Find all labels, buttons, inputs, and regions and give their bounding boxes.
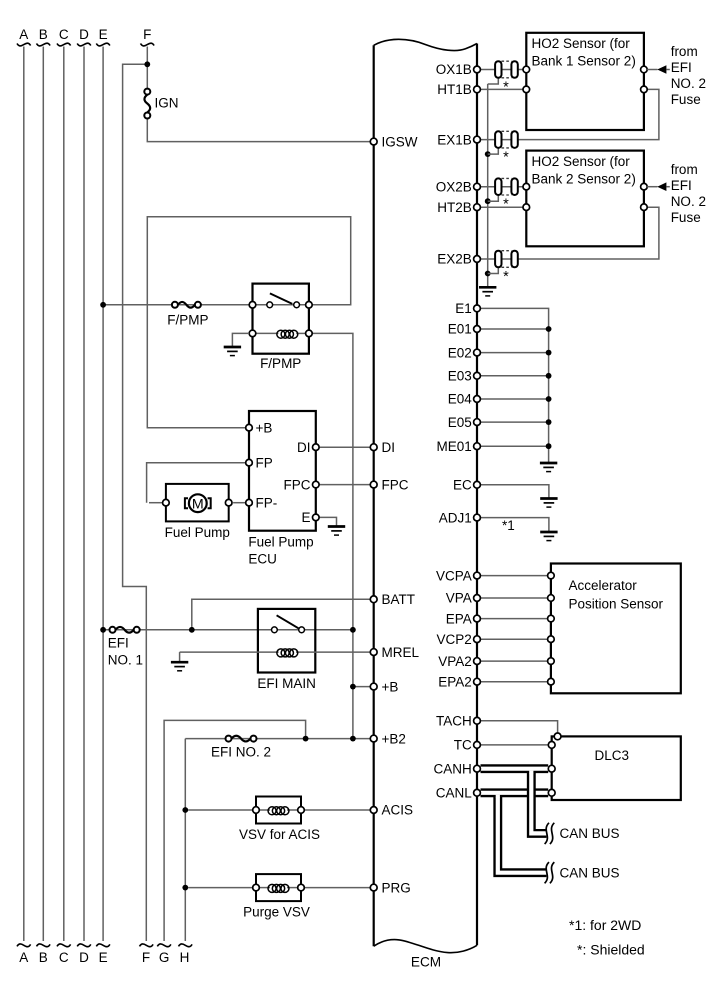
svg-text:F: F bbox=[143, 27, 151, 42]
svg-text:*1: for 2WD: *1: for 2WD bbox=[569, 917, 641, 933]
svg-text:B: B bbox=[39, 950, 48, 965]
svg-text:Accelerator: Accelerator bbox=[569, 578, 638, 593]
svg-text:FP-: FP- bbox=[256, 495, 278, 510]
svg-text:Position Sensor: Position Sensor bbox=[569, 597, 664, 612]
svg-text:from: from bbox=[671, 162, 698, 177]
svg-text:D: D bbox=[79, 27, 89, 42]
svg-text:E02: E02 bbox=[448, 345, 472, 360]
svg-text:MREL: MREL bbox=[382, 645, 420, 660]
svg-text:IGSW: IGSW bbox=[382, 134, 418, 149]
svg-text:M: M bbox=[192, 496, 204, 512]
svg-text:from: from bbox=[671, 44, 698, 59]
svg-text:EX1B: EX1B bbox=[437, 132, 472, 147]
svg-text:HT1B: HT1B bbox=[437, 82, 472, 97]
svg-text:TACH: TACH bbox=[436, 714, 472, 729]
svg-text:F: F bbox=[142, 950, 150, 965]
svg-text:VCP2: VCP2 bbox=[437, 632, 472, 647]
svg-text:CAN BUS: CAN BUS bbox=[560, 866, 620, 881]
svg-text:CAN BUS: CAN BUS bbox=[560, 826, 620, 841]
svg-text:*: * bbox=[503, 150, 509, 166]
svg-text:DI: DI bbox=[297, 440, 311, 455]
svg-text:H: H bbox=[180, 950, 190, 965]
svg-text:E01: E01 bbox=[448, 322, 472, 337]
svg-text:EX2B: EX2B bbox=[437, 252, 472, 267]
svg-text:PRG: PRG bbox=[382, 880, 411, 895]
svg-text:DI: DI bbox=[382, 440, 396, 455]
svg-text:E05: E05 bbox=[448, 415, 472, 430]
svg-text:G: G bbox=[159, 950, 170, 965]
svg-text:+B2: +B2 bbox=[382, 731, 406, 746]
svg-text:NO. 1: NO. 1 bbox=[108, 653, 143, 668]
svg-text:Bank 2 Sensor 2): Bank 2 Sensor 2) bbox=[532, 171, 636, 186]
svg-text:OX1B: OX1B bbox=[436, 62, 472, 77]
svg-text:HO2 Sensor (for: HO2 Sensor (for bbox=[532, 36, 631, 51]
svg-text:ME01: ME01 bbox=[437, 439, 472, 454]
svg-text:+B: +B bbox=[256, 420, 273, 435]
svg-text:VSV for ACIS: VSV for ACIS bbox=[239, 827, 320, 842]
svg-text:*: * bbox=[503, 80, 509, 96]
svg-text:EFI: EFI bbox=[671, 60, 692, 75]
svg-text:E: E bbox=[99, 950, 108, 965]
svg-text:+B: +B bbox=[382, 679, 399, 694]
svg-text:E1: E1 bbox=[455, 301, 472, 316]
svg-text:E: E bbox=[301, 510, 310, 525]
svg-text:C: C bbox=[59, 950, 69, 965]
svg-text:VPA: VPA bbox=[446, 591, 472, 606]
svg-text:IGN: IGN bbox=[155, 95, 179, 110]
svg-text:CANL: CANL bbox=[436, 786, 473, 801]
svg-text:ADJ1: ADJ1 bbox=[439, 510, 472, 525]
svg-text:*1: *1 bbox=[502, 518, 515, 533]
svg-text:Fuse: Fuse bbox=[671, 92, 701, 107]
svg-text:*: * bbox=[503, 197, 509, 213]
svg-text:CANH: CANH bbox=[434, 761, 472, 776]
svg-text:NO. 2: NO. 2 bbox=[671, 76, 706, 91]
svg-text:Fuse: Fuse bbox=[671, 210, 701, 225]
svg-text:A: A bbox=[19, 950, 28, 965]
svg-text:BATT: BATT bbox=[382, 592, 416, 607]
svg-text:E04: E04 bbox=[448, 392, 473, 407]
svg-text:EPA2: EPA2 bbox=[438, 674, 472, 689]
svg-text:E03: E03 bbox=[448, 369, 472, 384]
svg-text:HT2B: HT2B bbox=[437, 200, 472, 215]
svg-text:A: A bbox=[19, 27, 28, 42]
svg-text:EFI: EFI bbox=[671, 178, 692, 193]
svg-text:VCPA: VCPA bbox=[436, 568, 472, 583]
svg-text:TC: TC bbox=[454, 738, 472, 753]
svg-text:EPA: EPA bbox=[446, 611, 472, 626]
svg-text:Bank 1 Sensor 2): Bank 1 Sensor 2) bbox=[532, 53, 636, 68]
svg-text:*: Shielded: *: Shielded bbox=[577, 942, 645, 958]
svg-text:B: B bbox=[39, 27, 48, 42]
svg-text:F/PMP: F/PMP bbox=[167, 313, 208, 328]
svg-text:ECU: ECU bbox=[248, 551, 277, 566]
svg-text:HO2 Sensor (for: HO2 Sensor (for bbox=[532, 154, 631, 169]
svg-text:Fuel Pump: Fuel Pump bbox=[248, 534, 313, 549]
svg-text:NO. 2: NO. 2 bbox=[671, 194, 706, 209]
svg-text:ACIS: ACIS bbox=[382, 803, 414, 818]
svg-text:EFI: EFI bbox=[108, 635, 129, 650]
svg-text:ECM: ECM bbox=[411, 954, 441, 969]
svg-text:D: D bbox=[79, 950, 89, 965]
svg-text:EC: EC bbox=[453, 478, 472, 493]
svg-text:C: C bbox=[59, 27, 69, 42]
svg-text:Fuel Pump: Fuel Pump bbox=[165, 525, 230, 540]
svg-text:*: * bbox=[503, 269, 509, 285]
svg-text:FPC: FPC bbox=[284, 477, 311, 492]
svg-text:F/PMP: F/PMP bbox=[260, 356, 301, 371]
svg-text:EFI NO. 2: EFI NO. 2 bbox=[211, 745, 271, 760]
svg-text:VPA2: VPA2 bbox=[438, 654, 472, 669]
svg-text:OX2B: OX2B bbox=[436, 179, 472, 194]
svg-text:FP: FP bbox=[256, 455, 273, 470]
svg-text:DLC3: DLC3 bbox=[595, 748, 630, 763]
svg-text:Purge VSV: Purge VSV bbox=[243, 904, 310, 919]
svg-text:E: E bbox=[99, 27, 108, 42]
svg-text:FPC: FPC bbox=[382, 477, 409, 492]
svg-text:EFI MAIN: EFI MAIN bbox=[257, 676, 316, 691]
